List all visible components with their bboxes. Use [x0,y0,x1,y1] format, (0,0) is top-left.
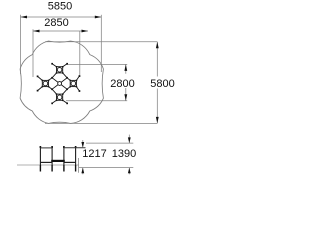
post P4 [75,146,77,165]
svg-text:5800: 5800 [150,78,174,90]
N arm square + circle [57,67,63,73]
arrow 1390 up [128,168,131,174]
top bar P1-P2 [40,147,52,149]
NW/NE inner dot chains [49,73,71,81]
E arm square + circle [70,80,76,86]
middle thick bar P2-P3 [51,160,65,162]
SW/SE inner dot chains [49,87,71,95]
arrow 2850 left [33,30,40,33]
foundation P2 [51,165,53,172]
ext line left 2850 [32,29,34,77]
safety zone quatrefoil outline [20,41,103,123]
rope lines inner dots to hub [52,78,67,89]
post caps [40,146,77,148]
star junction dots [37,63,81,104]
W arm outer legs [38,76,43,90]
arrow 2850 right [82,30,89,33]
central circle [58,82,62,86]
dim line 1217 stubs [82,140,84,148]
foundation P1 [39,165,41,172]
ext line bottom 2800 [66,100,127,102]
arrow 2800 bottom [124,94,127,101]
arrow 5850 right [95,16,102,19]
post P1 [39,146,41,165]
top bar P3-P4 + extension to dim [64,147,86,149]
gray stub right of ground [78,158,80,173]
svg-text:1217: 1217 [82,148,106,160]
arrow 5800 bottom [156,117,159,124]
dim line 1390 stubs [128,135,130,144]
svg-text:5850: 5850 [48,1,72,13]
ext line right 5850 [100,15,102,72]
post P2 [51,146,53,165]
svg-text:2800: 2800 [110,78,134,90]
S arm square + circle [57,94,63,100]
arrow 5850 left [21,16,28,19]
S arm outer legs [52,100,67,103]
arrowheads top dims [21,16,159,124]
ext line left 5850 [20,15,22,74]
low bar P3-P4 [64,161,76,163]
ext line bottom 5800 [45,122,157,124]
foundation P3 [63,165,65,172]
arrow 1217 down [81,142,84,148]
dim line 5850 [21,16,102,18]
ground line [17,164,79,166]
dim line 2800 [125,64,127,100]
dim line 2850 [33,30,88,32]
arrow 5800 top [156,42,159,49]
E arm outer legs [76,76,79,91]
bottom dims [79,135,133,175]
ext line bottom (foundation) [79,167,133,169]
arrow 1390 down [128,137,131,143]
svg-text:2850: 2850 [44,17,68,29]
ext line top 5800 [45,41,157,43]
dim line 5800 [156,42,158,124]
low bar P1-P2 [40,161,52,163]
post P3 [63,146,65,165]
ext line right 2850 [79,31,81,77]
arrow 2800 top [124,64,127,71]
ext line top 2800 [66,63,128,65]
svg-text:1390: 1390 [112,148,136,160]
N arm outer legs [52,64,67,67]
W arm square + circle [42,80,48,86]
ext line 1390 top [86,142,133,144]
arrow 1217 up [81,168,84,174]
foundation P4 [75,165,77,172]
